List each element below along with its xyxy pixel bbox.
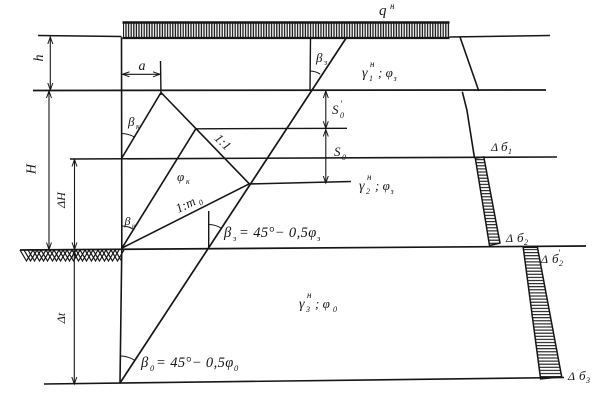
label phi_k [177,169,190,186]
top-left level line [38,36,122,37]
label delta sigma 3 [567,368,590,385]
svg-text:з: з [323,58,327,67]
dimension delta-H [54,160,77,250]
dimension H [25,91,52,250]
label q^н [379,1,395,19]
svg-text:з: з [232,233,237,243]
ground surface line [20,246,586,250]
svg-text:Δt: Δt [54,312,68,324]
embankment right slope [460,37,479,91]
dimension S'0 [323,91,344,128]
svg-text:H: H [25,163,40,175]
svg-text:γ: γ [362,66,368,81]
dimension S0 [323,130,346,184]
S'0 settlement line [196,127,347,130]
svg-text:; φ: ; φ [315,296,330,311]
svg-text:з: з [390,187,394,196]
svg-text:1: 1 [508,147,512,156]
angle arc beta_n at ground point [122,226,134,229]
svg-text:1: 1 [369,74,373,83]
svg-text:; φ: ; φ [375,178,390,193]
label gamma1 phi3 [362,59,397,83]
S0 settled line [249,182,351,185]
phi_k line [122,129,196,248]
label gamma2 phi3 [359,172,394,196]
svg-text:γ: γ [359,179,365,194]
svg-text:н: н [132,222,136,230]
svg-text:н: н [367,172,372,182]
tick for beta_3 angle at ground [208,211,210,248]
label equation beta_3 [223,225,321,243]
label 1:m0 (rotated along slope) [173,191,205,218]
svg-text:к: к [136,122,140,131]
svg-text:ΔH: ΔH [54,191,68,209]
svg-text:Δ: Δ [540,252,548,266]
svg-text:б: б [501,139,508,154]
svg-text:β: β [315,50,323,65]
svg-text:S: S [332,102,339,117]
svg-text:β: β [140,355,149,371]
dimension a [123,59,161,77]
svg-text:h: h [32,55,47,62]
svg-text:н: н [370,59,375,69]
svg-text:S: S [334,144,341,159]
label beta_n [124,214,137,230]
svg-text:β: β [124,214,131,228]
label delta sigma 2 [505,230,528,247]
label gamma3 phi0 [299,290,337,314]
svg-text:2: 2 [559,259,563,268]
svg-text:3: 3 [585,376,590,385]
svg-text:2: 2 [366,187,370,196]
svg-text:0: 0 [333,305,337,314]
tick at top of a-dimension [160,61,163,95]
tick for beta_z angle at top [309,38,312,90]
label beta_z [315,50,327,67]
angle arc beta_z top [310,71,320,74]
svg-text:β: β [223,225,232,241]
label equation beta_0 [140,355,239,373]
top-right level line [450,36,551,38]
svg-text:q: q [379,3,387,19]
dimension h [32,37,53,91]
svg-text:β: β [127,114,135,129]
svg-text:з: з [316,233,321,243]
angle arc beta_k [122,134,135,138]
label delta sigma 1 [490,139,512,156]
svg-text:Δ: Δ [490,140,498,154]
svg-text:a: a [139,59,146,74]
ground hatch band [20,250,124,261]
main vertical axis line [120,37,122,383]
svg-text:Δ: Δ [567,369,575,383]
angle arc beta_3 at ground [209,225,222,229]
svg-text:γ: γ [299,297,305,312]
1:m0 line [122,184,249,248]
svg-text:н: н [390,1,395,11]
svg-text:φ: φ [177,169,184,184]
svg-text:0: 0 [342,153,346,162]
angle arc beta_0 at bottom [120,356,135,360]
svg-text:Δ: Δ [505,231,513,245]
embankment base line [33,89,546,92]
distributed load strip q (hatched) [123,22,450,39]
stress bar 2 (hatched) [523,247,562,379]
long dispersal ray beta [120,38,347,384]
svg-text:; φ: ; φ [378,65,393,80]
svg-text:= 45°− 0,5φ: = 45°− 0,5φ [156,355,234,371]
svg-text:2: 2 [524,238,528,247]
dimension delta-t [54,251,77,384]
svg-text:н: н [307,290,312,300]
label beta_k [127,114,140,131]
svg-text:0: 0 [340,111,344,120]
stress bar 1 (hatched) [475,157,500,246]
H level line [70,157,557,159]
svg-text:б: б [517,230,524,245]
svg-text:б: б [579,368,586,383]
left slope of compacted core [122,93,162,159]
svg-text:3: 3 [305,305,310,314]
bottom boundary line [44,378,564,385]
label delta sigma 2 prime [540,248,563,268]
svg-text:= 45°− 0,5φ: = 45°− 0,5φ [239,225,317,241]
svg-text:з: з [393,74,397,83]
influence boundary below slope [462,92,474,158]
svg-text:к: к [186,177,190,186]
1:1 slope line [161,93,249,184]
